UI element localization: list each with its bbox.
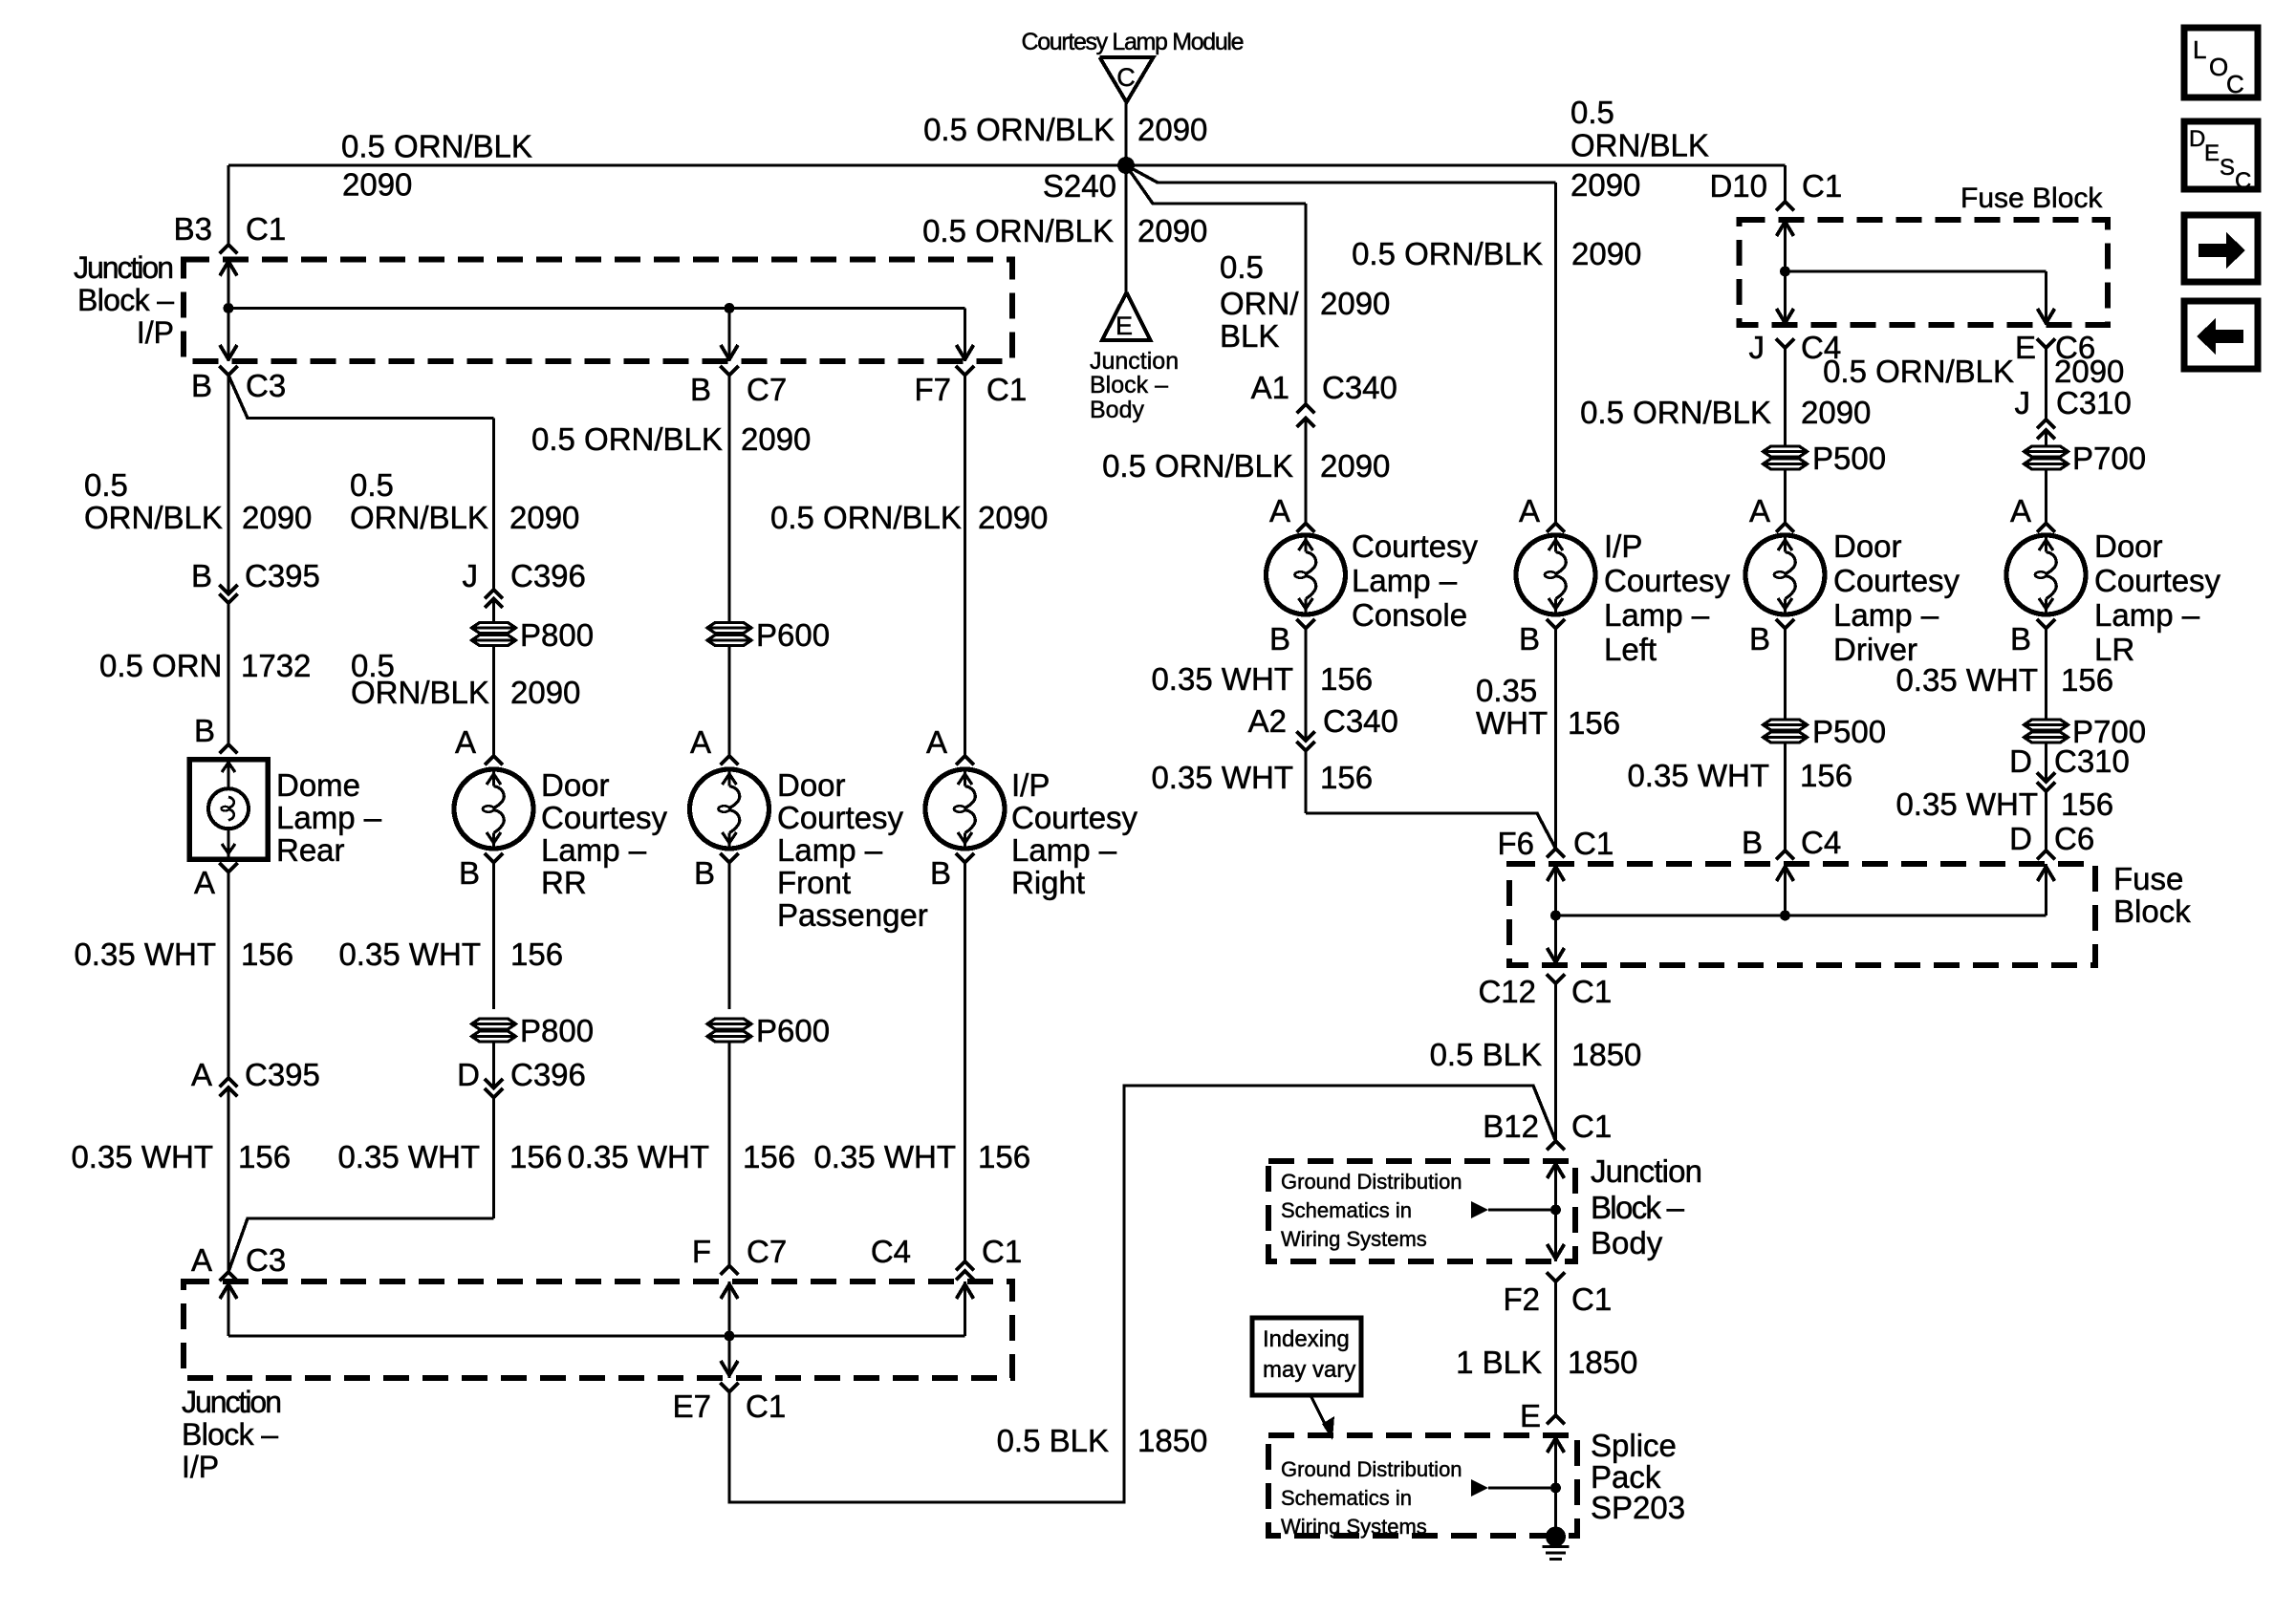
svg-text:0.35 WHT: 0.35 WHT <box>338 937 481 972</box>
svg-text:Rear: Rear <box>276 832 345 868</box>
svg-text:Splice: Splice <box>1591 1428 1677 1463</box>
svg-text:156: 156 <box>1568 705 1620 741</box>
svg-text:B: B <box>1749 621 1770 657</box>
svg-text:Ground Distribution: Ground Distribution <box>1281 1170 1462 1194</box>
svg-text:B3: B3 <box>174 211 212 247</box>
svg-text:C1: C1 <box>1573 826 1614 861</box>
svg-text:0.5: 0.5 <box>1570 95 1614 130</box>
svg-text:2090: 2090 <box>1137 112 1207 147</box>
svg-text:Junction: Junction <box>1090 348 1179 375</box>
svg-text:B: B <box>191 368 212 403</box>
svg-text:E: E <box>2015 330 2036 365</box>
svg-text:0.5 ORN/BLK: 0.5 ORN/BLK <box>531 421 723 457</box>
svg-text:C12: C12 <box>1478 974 1536 1009</box>
svg-text:Block –: Block – <box>77 283 174 317</box>
svg-text:A: A <box>191 1057 212 1092</box>
svg-text:Right: Right <box>1011 865 1085 900</box>
svg-text:may vary: may vary <box>1263 1357 1355 1383</box>
svg-text:Fuse: Fuse <box>2113 861 2183 896</box>
svg-text:Fuse Block: Fuse Block <box>1960 183 2103 214</box>
svg-text:C340: C340 <box>1323 703 1398 739</box>
svg-text:L: L <box>2193 35 2206 64</box>
svg-text:0.35 WHT: 0.35 WHT <box>567 1139 709 1174</box>
svg-text:0.5 BLK: 0.5 BLK <box>997 1423 1109 1458</box>
svg-text:C7: C7 <box>747 1234 787 1269</box>
svg-text:0.35 WHT: 0.35 WHT <box>1627 758 1769 793</box>
svg-text:Courtesy Lamp Module: Courtesy Lamp Module <box>1022 29 1245 55</box>
svg-text:0.5 ORN/BLK: 0.5 ORN/BLK <box>922 213 1114 248</box>
svg-text:Junction: Junction <box>182 1385 282 1419</box>
svg-text:156: 156 <box>1800 758 1852 793</box>
svg-text:0.5 BLK: 0.5 BLK <box>1430 1037 1542 1072</box>
svg-text:C4: C4 <box>871 1234 911 1269</box>
svg-text:Courtesy: Courtesy <box>2094 563 2221 598</box>
svg-text:J: J <box>1749 330 1765 365</box>
svg-text:Body: Body <box>1090 397 1144 423</box>
svg-text:SP203: SP203 <box>1591 1490 1685 1525</box>
svg-text:A: A <box>194 865 215 900</box>
svg-text:2090: 2090 <box>978 500 1048 535</box>
svg-text:Door: Door <box>2094 528 2163 564</box>
svg-text:0.5 ORN/BLK: 0.5 ORN/BLK <box>1580 395 1771 430</box>
svg-text:0.5 ORN/BLK: 0.5 ORN/BLK <box>1823 354 2014 389</box>
svg-text:B: B <box>930 855 951 891</box>
svg-text:0.35 WHT: 0.35 WHT <box>1151 661 1293 697</box>
svg-text:Block: Block <box>2113 894 2191 929</box>
svg-text:P700: P700 <box>2072 441 2146 476</box>
svg-text:0.35 WHT: 0.35 WHT <box>1151 760 1293 795</box>
svg-text:2090: 2090 <box>510 675 580 710</box>
svg-text:2090: 2090 <box>242 500 312 535</box>
svg-text:0.35 WHT: 0.35 WHT <box>74 937 216 972</box>
svg-text:C1: C1 <box>246 211 286 247</box>
svg-text:156: 156 <box>509 1139 562 1174</box>
svg-text:ORN/BLK: ORN/BLK <box>1570 128 1709 163</box>
svg-text:Lamp –: Lamp – <box>1604 597 1710 633</box>
svg-text:C396: C396 <box>510 1057 586 1092</box>
svg-text:0.5 ORN/BLK: 0.5 ORN/BLK <box>770 500 962 535</box>
svg-text:Lamp –: Lamp – <box>1833 597 1939 633</box>
svg-text:Courtesy: Courtesy <box>777 800 904 835</box>
svg-text:156: 156 <box>2061 786 2113 822</box>
svg-text:ORN/BLK: ORN/BLK <box>350 500 488 535</box>
svg-text:156: 156 <box>1320 661 1373 697</box>
svg-text:D: D <box>2009 821 2032 856</box>
svg-text:ORN/: ORN/ <box>1220 286 1299 321</box>
svg-text:Lamp –: Lamp – <box>1352 563 1458 598</box>
svg-text:WHT: WHT <box>1476 705 1548 741</box>
svg-text:0.5: 0.5 <box>84 467 128 503</box>
svg-text:Body: Body <box>1591 1225 1663 1260</box>
svg-text:A: A <box>2010 493 2031 528</box>
svg-text:Ground Distribution: Ground Distribution <box>1281 1457 1462 1481</box>
svg-text:B: B <box>194 713 215 748</box>
svg-text:2090: 2090 <box>1571 236 1641 271</box>
svg-text:1850: 1850 <box>1571 1037 1641 1072</box>
svg-text:A: A <box>926 724 947 760</box>
svg-text:C4: C4 <box>1801 825 1841 860</box>
svg-text:P500: P500 <box>1812 441 1886 476</box>
svg-text:2090: 2090 <box>342 167 412 203</box>
svg-text:B: B <box>1519 621 1540 657</box>
svg-text:D: D <box>2189 126 2205 152</box>
svg-text:BLK: BLK <box>1220 318 1279 354</box>
svg-text:S: S <box>2220 155 2235 181</box>
svg-text:Lamp –: Lamp – <box>1011 832 1117 868</box>
svg-text:B: B <box>690 372 711 407</box>
svg-text:C1: C1 <box>986 372 1027 407</box>
svg-text:J: J <box>2015 385 2031 420</box>
svg-text:J: J <box>463 558 479 593</box>
svg-text:Courtesy: Courtesy <box>541 800 668 835</box>
svg-text:0.5: 0.5 <box>1220 249 1264 285</box>
svg-text:0.5 ORN/BLK: 0.5 ORN/BLK <box>341 129 532 164</box>
svg-text:156: 156 <box>743 1139 795 1174</box>
svg-text:D: D <box>457 1057 480 1092</box>
svg-text:E: E <box>1520 1398 1541 1433</box>
svg-text:0.5: 0.5 <box>350 467 394 503</box>
svg-text:C3: C3 <box>246 368 286 403</box>
svg-text:C395: C395 <box>245 1057 320 1092</box>
svg-text:Block –: Block – <box>1591 1190 1685 1225</box>
svg-text:I/P: I/P <box>137 315 174 350</box>
svg-text:C396: C396 <box>510 558 586 593</box>
svg-text:C3: C3 <box>246 1242 286 1278</box>
svg-text:2090: 2090 <box>1320 448 1390 484</box>
svg-text:B: B <box>459 855 480 891</box>
svg-text:A1: A1 <box>1251 370 1289 405</box>
svg-text:F7: F7 <box>914 372 951 407</box>
svg-text:C1: C1 <box>1571 1281 1612 1317</box>
svg-text:Front: Front <box>777 865 851 900</box>
svg-text:E: E <box>1116 312 1133 340</box>
svg-text:2090: 2090 <box>741 421 811 457</box>
svg-text:A: A <box>1749 493 1770 528</box>
svg-text:Lamp –: Lamp – <box>2094 597 2200 633</box>
svg-text:C1: C1 <box>1571 974 1612 1009</box>
svg-text:Wiring Systems: Wiring Systems <box>1281 1227 1427 1251</box>
svg-text:1850: 1850 <box>1568 1345 1637 1380</box>
svg-text:C395: C395 <box>245 558 320 593</box>
svg-text:S240: S240 <box>1043 168 1116 204</box>
svg-text:A: A <box>455 724 476 760</box>
svg-text:RR: RR <box>541 865 587 900</box>
svg-text:F: F <box>692 1234 711 1269</box>
svg-text:C1: C1 <box>1802 168 1842 204</box>
svg-text:B: B <box>1269 621 1290 657</box>
svg-text:0.5 ORN/BLK: 0.5 ORN/BLK <box>1102 448 1293 484</box>
svg-text:F6: F6 <box>1497 826 1534 861</box>
svg-text:0.35 WHT: 0.35 WHT <box>1895 786 2038 822</box>
svg-text:0.35 WHT: 0.35 WHT <box>71 1139 213 1174</box>
svg-text:156: 156 <box>241 937 293 972</box>
svg-text:0.35 WHT: 0.35 WHT <box>1895 662 2038 698</box>
svg-text:Courtesy: Courtesy <box>1352 528 1479 564</box>
svg-text:156: 156 <box>1320 760 1373 795</box>
svg-text:C1: C1 <box>746 1389 786 1424</box>
svg-text:0.35 WHT: 0.35 WHT <box>813 1139 956 1174</box>
svg-text:E7: E7 <box>673 1389 711 1424</box>
svg-text:Block –: Block – <box>182 1417 278 1452</box>
svg-text:Junction: Junction <box>74 250 174 285</box>
svg-text:0.5 ORN: 0.5 ORN <box>99 648 222 683</box>
svg-text:A: A <box>690 724 711 760</box>
svg-text:Lamp –: Lamp – <box>276 800 382 835</box>
svg-text:Door: Door <box>777 767 846 803</box>
svg-text:C7: C7 <box>747 372 787 407</box>
svg-text:Block –: Block – <box>1090 372 1168 398</box>
svg-text:B: B <box>694 855 715 891</box>
svg-text:Junction: Junction <box>1591 1153 1702 1189</box>
svg-text:Door: Door <box>1833 528 1902 564</box>
svg-text:P500: P500 <box>1812 714 1886 749</box>
svg-text:Lamp –: Lamp – <box>777 832 883 868</box>
svg-text:ORN/BLK: ORN/BLK <box>351 675 489 710</box>
svg-text:C1: C1 <box>982 1234 1022 1269</box>
svg-text:2090: 2090 <box>1570 167 1640 203</box>
svg-text:2090: 2090 <box>1137 213 1207 248</box>
svg-text:A: A <box>1519 493 1540 528</box>
svg-text:P800: P800 <box>520 1013 594 1048</box>
svg-text:0.5 ORN/BLK: 0.5 ORN/BLK <box>923 112 1115 147</box>
svg-text:D: D <box>2009 743 2032 779</box>
svg-text:1732: 1732 <box>241 648 311 683</box>
svg-text:B12: B12 <box>1483 1109 1539 1144</box>
svg-text:Courtesy: Courtesy <box>1011 800 1138 835</box>
svg-text:2090: 2090 <box>1320 286 1390 321</box>
svg-text:Dome: Dome <box>276 767 360 803</box>
svg-text:A2: A2 <box>1248 703 1287 739</box>
svg-text:C6: C6 <box>2054 821 2094 856</box>
svg-text:1850: 1850 <box>1137 1423 1207 1458</box>
svg-text:0.5 ORN/BLK: 0.5 ORN/BLK <box>1352 236 1543 271</box>
svg-text:2090: 2090 <box>1801 395 1871 430</box>
svg-text:1 BLK: 1 BLK <box>1456 1345 1542 1380</box>
svg-text:C: C <box>1116 63 1136 92</box>
svg-text:2090: 2090 <box>2054 354 2124 389</box>
svg-text:2090: 2090 <box>509 500 579 535</box>
svg-text:P800: P800 <box>520 617 594 653</box>
svg-text:156: 156 <box>238 1139 291 1174</box>
svg-text:0.35 WHT: 0.35 WHT <box>337 1139 480 1174</box>
svg-text:Left: Left <box>1604 632 1657 667</box>
svg-text:B: B <box>191 558 212 593</box>
svg-text:Passenger: Passenger <box>777 897 928 933</box>
svg-text:156: 156 <box>2061 662 2113 698</box>
svg-text:C310: C310 <box>2054 743 2130 779</box>
svg-text:ORN/BLK: ORN/BLK <box>84 500 223 535</box>
svg-text:I/P: I/P <box>1011 767 1050 803</box>
svg-text:Lamp –: Lamp – <box>541 832 647 868</box>
svg-text:I/P: I/P <box>1604 528 1642 564</box>
svg-text:Indexing: Indexing <box>1263 1326 1350 1352</box>
svg-text:C: C <box>2226 70 2244 98</box>
svg-text:Wiring Systems: Wiring Systems <box>1281 1515 1427 1539</box>
svg-text:P600: P600 <box>756 1013 830 1048</box>
svg-text:Courtesy: Courtesy <box>1833 563 1960 598</box>
svg-text:C340: C340 <box>1322 370 1397 405</box>
svg-text:C: C <box>2235 168 2251 194</box>
svg-text:Door: Door <box>541 767 610 803</box>
svg-text:P600: P600 <box>756 617 830 653</box>
svg-text:0.35: 0.35 <box>1476 673 1537 708</box>
svg-text:156: 156 <box>978 1139 1030 1174</box>
svg-text:F2: F2 <box>1503 1281 1540 1317</box>
svg-text:C310: C310 <box>2056 385 2132 420</box>
svg-text:Courtesy: Courtesy <box>1604 563 1731 598</box>
svg-text:A: A <box>1269 493 1290 528</box>
svg-text:Schematics in: Schematics in <box>1281 1486 1412 1510</box>
svg-text:I/P: I/P <box>182 1450 219 1484</box>
svg-text:A: A <box>191 1242 212 1278</box>
svg-text:156: 156 <box>510 937 563 972</box>
svg-text:E: E <box>2204 140 2220 166</box>
svg-text:B: B <box>1742 825 1763 860</box>
svg-text:Console: Console <box>1352 597 1467 633</box>
svg-text:Schematics in: Schematics in <box>1281 1198 1412 1222</box>
svg-text:C1: C1 <box>1571 1109 1612 1144</box>
svg-text:D10: D10 <box>1709 168 1767 204</box>
svg-text:B: B <box>2010 621 2031 657</box>
